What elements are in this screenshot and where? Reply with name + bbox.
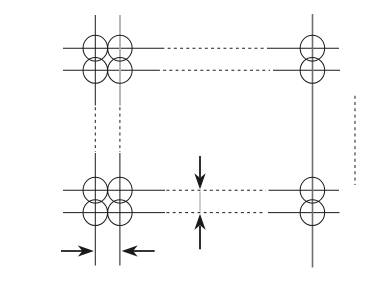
vertical pitch dimension arrow (bottom, pointing up) (195, 215, 204, 249)
hole circle C1 (bottom-left cluster, top-left) (83, 177, 108, 203)
horizontal pitch dimension arrow (right, pointing left) (123, 246, 155, 255)
hole circle A3 (top-left cluster, bottom-left) (83, 58, 108, 84)
horizontal pitch dimension arrow (left, pointing right) (61, 246, 92, 255)
vertical pitch dimension arrow (top, pointing down) (195, 156, 204, 188)
row 1 center line (solid left) (63, 47, 162, 49)
row 3 center line (dashed middle) (167, 189, 267, 191)
column 1 center line (solid bottom) (94, 153, 96, 266)
column 2 center line (dashed middle) (119, 107, 121, 152)
hole circle B1 (top-right pair, upper) (300, 35, 325, 61)
row 4 center line (solid right) (268, 212, 340, 214)
hole circle A4 (top-left cluster, bottom-right) (108, 58, 132, 84)
row 1 center line (dashed middle) (162, 47, 265, 49)
hole circle D2 (bottom-right pair, lower) (300, 200, 325, 226)
hole circle C3 (bottom-left cluster, bottom-left) (83, 200, 108, 226)
hole circle C4 (bottom-left cluster, bottom-right) (108, 200, 132, 226)
column 2 center line (gray solid top) (119, 15, 121, 106)
hole circle B2 (top-right pair, lower) (300, 58, 325, 84)
row 4 center line (solid left) (63, 212, 165, 214)
hole circle C2 (bottom-left cluster, top-right) (108, 177, 132, 203)
hole circle A1 (top-left cluster, top-left) (83, 35, 108, 61)
dimension extension segment (light gray) (199, 192, 201, 212)
hole circle A2 (top-left cluster, top-right) (108, 35, 132, 61)
repeat-break dashed line at far right (354, 96, 356, 185)
column 1 center line (solid top) (94, 15, 96, 106)
hole circle D1 (bottom-right pair, upper) (300, 177, 325, 203)
row 2 center line (solid right) (273, 69, 340, 71)
row 4 center line (dashed middle) (167, 212, 266, 214)
column 2 center line (solid bottom) (119, 153, 121, 266)
column 3 center line (gray, full height) (312, 14, 314, 268)
row 2 center line (dashed middle) (157, 69, 270, 71)
row 3 center line (solid left) (63, 189, 165, 191)
row 3 center line (solid right) (269, 189, 340, 191)
row 2 center line (solid left) (63, 69, 157, 71)
row 1 center line (solid right) (267, 47, 339, 49)
column 1 center line (dashed middle) (94, 107, 96, 152)
